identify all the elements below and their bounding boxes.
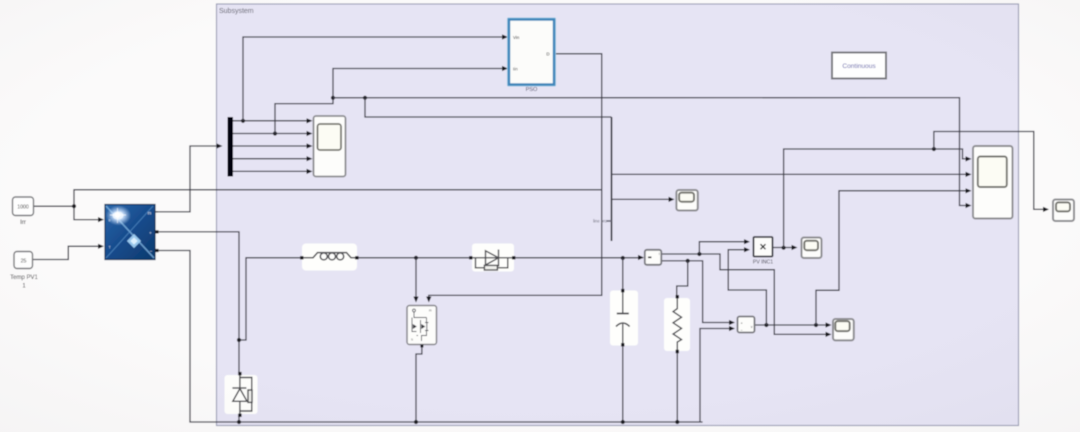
scope5 (duty): [676, 190, 697, 211]
wire: capacitor bottom to rail: [622, 345, 624, 422]
wire: constant 25 to PV input 2: [32, 246, 101, 259]
junction demux out1: [241, 119, 245, 123]
wire: I signal to product input1: [699, 242, 746, 254]
junction MOSFET drain tap: [414, 256, 418, 260]
PSO subsystem block: [508, 18, 556, 86]
wire: PV plus output down: [155, 232, 239, 373]
demux outputs to scope1: [233, 120, 309, 122]
junction capacitor tap: [621, 256, 625, 260]
wire: MOSFET source to rail: [416, 346, 422, 422]
wire: power signal up to big scope input1: [784, 149, 968, 248]
junction demux out2: [273, 131, 277, 135]
voltage measurement block: [738, 317, 755, 333]
wire: resistor bottom to rail: [676, 352, 678, 423]
wire: tap to big scope input2: [612, 173, 969, 175]
wire: Ipv up to PSO Iin: [275, 69, 505, 134]
big scope2 (4 inputs): [973, 146, 1013, 219]
scope4 (V and I, 2 inputs): [833, 319, 854, 340]
demux: [228, 117, 234, 177]
wire: long Irr line at y=190 to D-line: [74, 190, 602, 206]
subsystem region: [217, 4, 1019, 426]
wire: capacitor tap down: [622, 258, 624, 291]
capacitor C: [610, 291, 638, 346]
constant block 1000: [13, 197, 34, 216]
wire: drain tap down into MOSFET: [415, 258, 417, 298]
wire: I block bottom circuit out: [661, 261, 731, 323]
scope3 (power): [802, 238, 822, 259]
junction y98: [363, 96, 367, 100]
wire: branch y117 down x611 with scope taps: [365, 98, 612, 117]
junction on 1000 output: [72, 204, 76, 208]
scope1 (5-input): [314, 116, 346, 177]
wire: tap to small scope5: [612, 198, 672, 200]
wire: product output to scope3: [773, 247, 795, 249]
resistor R load: [664, 298, 690, 351]
MOSFET bottom terminal: [420, 345, 423, 348]
wire: rail to voltage block minus input: [700, 329, 732, 423]
wire: PV minus down to ground rail: [155, 251, 703, 423]
wire: PV m output to demux input: [155, 146, 219, 212]
inductor L: [302, 244, 357, 271]
diode D1 (series): [472, 244, 514, 272]
input diode (vertical, across PV): [225, 375, 258, 414]
wire: constant 1000 to junction: [34, 205, 74, 207]
wire: V signal jog up to product input2: [728, 250, 766, 325]
wire: branch to outside scope6: [934, 132, 1046, 210]
product block PV INC1: [754, 237, 773, 257]
wire: I block top signal out: [661, 254, 828, 334]
junction I signal: [697, 252, 701, 256]
wire: long measurement line y=98 to right scope input4: [333, 98, 968, 206]
wire: resistor feed jog: [677, 261, 688, 297]
wire: main line inductor to diode to current block: [359, 257, 470, 259]
wire: junction down to PV input 1: [74, 206, 101, 219]
wire: V signal up to big scope input3: [816, 191, 968, 325]
junction on Iin riser: [331, 96, 335, 100]
wire: voltage block output to scope4 input1: [755, 324, 829, 326]
powergui Continuous block: [832, 53, 886, 79]
PV output stubs: [155, 211, 158, 213]
wire: PSO D output down to MOSFET gate: [429, 54, 602, 298]
scope6 (outside region): [1053, 200, 1074, 222]
current measurement block: [645, 250, 662, 265]
wire: Vpv to PSO Vin: [243, 37, 505, 121]
junction resistor tap: [686, 259, 690, 263]
junction plus node: [237, 338, 241, 342]
constant block 25: [14, 252, 33, 269]
wire: vertical diode to rail: [238, 415, 240, 422]
MOSFET switch: [407, 306, 437, 345]
wire: inductor feed from plus node: [239, 258, 300, 340]
